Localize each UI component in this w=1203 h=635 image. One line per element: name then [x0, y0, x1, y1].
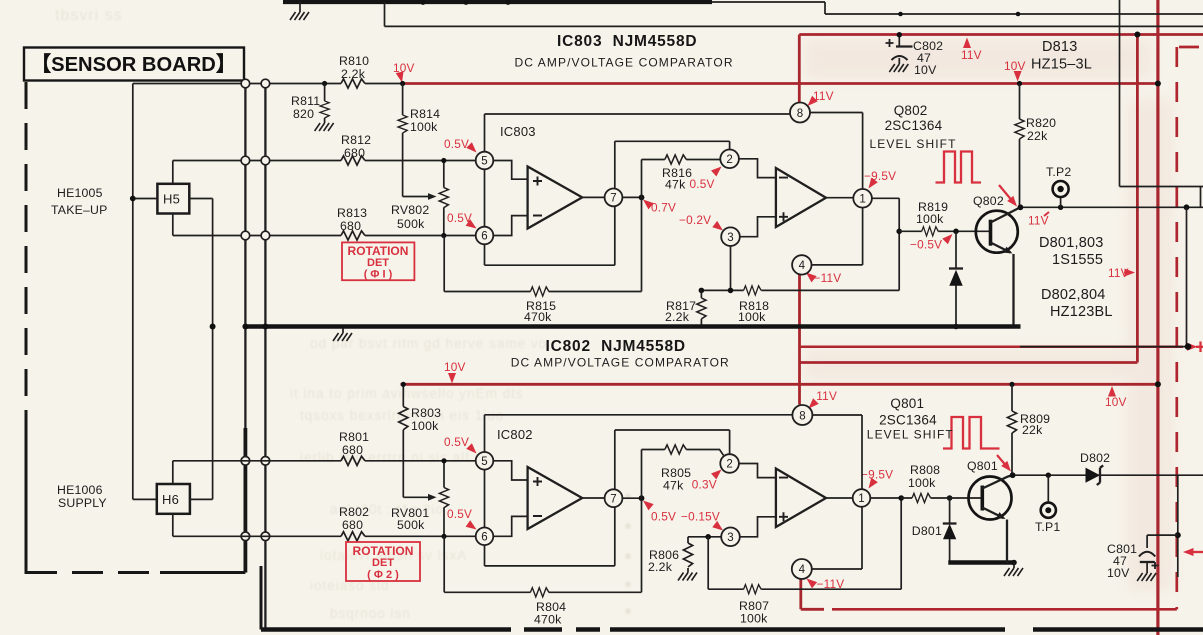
svg-text:11V: 11V: [961, 48, 982, 62]
svg-text:●: ●: [624, 488, 633, 503]
svg-text:680: 680: [344, 146, 365, 160]
svg-text:D802: D802: [1080, 451, 1110, 465]
svg-text:100k: 100k: [908, 476, 936, 490]
svg-text:2: 2: [726, 154, 732, 166]
svg-text:●: ●: [624, 576, 633, 591]
svg-text:IC803: IC803: [500, 124, 536, 139]
svg-text:22k: 22k: [1027, 129, 1048, 143]
svg-text:DC AMP/VOLTAGE COMPARATOR: DC AMP/VOLTAGE COMPARATOR: [515, 56, 734, 70]
svg-text:5: 5: [481, 456, 487, 468]
svg-text:H5: H5: [163, 192, 180, 207]
svg-text:11V: 11V: [816, 389, 837, 403]
svg-text:7: 7: [610, 493, 616, 505]
svg-text:3: 3: [727, 532, 733, 544]
svg-text:IC802: IC802: [497, 427, 533, 442]
svg-text:HZ15–3L: HZ15–3L: [1031, 57, 1092, 73]
svg-text:10V: 10V: [444, 360, 466, 374]
svg-text:0.5V: 0.5V: [447, 507, 472, 521]
svg-text:1: 1: [858, 493, 864, 505]
svg-text:D801,803: D801,803: [1039, 235, 1104, 251]
svg-text:10V: 10V: [914, 63, 937, 77]
svg-text:10V: 10V: [1004, 59, 1026, 73]
svg-text:R820: R820: [1026, 116, 1056, 130]
svg-text:0.3V: 0.3V: [692, 478, 717, 492]
svg-text:2: 2: [726, 459, 732, 471]
svg-text:2SC1364: 2SC1364: [885, 118, 943, 133]
svg-text:( Φ I ): ( Φ I ): [364, 269, 393, 281]
svg-text:8: 8: [799, 410, 805, 422]
svg-text:10V: 10V: [393, 61, 415, 75]
svg-text:●: ●: [624, 518, 633, 533]
svg-text:IC803 NJM4558D: IC803 NJM4558D: [557, 33, 697, 50]
svg-text:−0.2V: −0.2V: [679, 213, 711, 227]
svg-text:6: 6: [481, 531, 487, 543]
svg-text:R814: R814: [410, 107, 440, 121]
svg-text:680: 680: [342, 443, 363, 457]
svg-text:470k: 470k: [524, 310, 552, 324]
svg-text:4: 4: [799, 260, 806, 272]
svg-text:−9.5V: −9.5V: [861, 468, 893, 482]
svg-text:5: 5: [481, 156, 487, 168]
svg-text:DET: DET: [372, 557, 394, 569]
svg-text:R810: R810: [339, 54, 369, 68]
svg-text:100k: 100k: [411, 419, 439, 433]
svg-text:10V: 10V: [1107, 566, 1130, 580]
svg-text:TAKE–UP: TAKE–UP: [51, 203, 108, 217]
svg-text:T.P1: T.P1: [1035, 520, 1060, 534]
svg-text:−9.5V: −9.5V: [864, 169, 896, 183]
svg-text:D801: D801: [912, 524, 942, 538]
svg-text:0.5V: 0.5V: [651, 510, 676, 524]
svg-text:Q801: Q801: [967, 459, 998, 473]
svg-text:10V: 10V: [1105, 395, 1127, 409]
svg-text:( Φ 2 ): ( Φ 2 ): [367, 569, 399, 581]
svg-text:LEVEL SHIFT: LEVEL SHIFT: [870, 137, 957, 151]
svg-text:680: 680: [340, 219, 361, 233]
svg-text:0.5V: 0.5V: [444, 435, 469, 449]
svg-text:R812: R812: [341, 133, 371, 147]
svg-text:22k: 22k: [1022, 423, 1043, 437]
svg-text:2.2k: 2.2k: [665, 310, 690, 324]
svg-text:IC802 NJM4558D: IC802 NJM4558D: [546, 338, 686, 355]
svg-text:Q802: Q802: [894, 103, 928, 118]
svg-text:ROTATION: ROTATION: [353, 544, 414, 558]
svg-text:680: 680: [342, 518, 363, 532]
svg-text:ROTATION: ROTATION: [348, 244, 409, 258]
svg-text:0.5V: 0.5V: [690, 177, 715, 191]
svg-text:H6: H6: [162, 492, 179, 507]
svg-text:3: 3: [727, 232, 733, 244]
svg-text:0.7V: 0.7V: [651, 201, 676, 215]
svg-text:−0.15V: −0.15V: [681, 510, 720, 524]
svg-text:T.P2: T.P2: [1046, 165, 1071, 179]
svg-text:HE1005: HE1005: [57, 186, 103, 200]
svg-text:【SENSOR BOARD】: 【SENSOR BOARD】: [31, 53, 236, 76]
svg-text:2.2k: 2.2k: [648, 560, 673, 574]
svg-text:11V: 11V: [1108, 266, 1129, 280]
svg-text:●: ●: [624, 548, 633, 563]
svg-text:100k: 100k: [410, 120, 438, 134]
svg-text:D813: D813: [1042, 39, 1077, 55]
svg-text:2SC1364: 2SC1364: [879, 413, 937, 428]
svg-text:Q802: Q802: [973, 194, 1004, 208]
svg-text:it ina to prim avihwsello: it ina to prim avihwsello ynEm dts: [290, 386, 524, 401]
svg-text:100k: 100k: [916, 212, 944, 226]
svg-text:R803: R803: [411, 406, 441, 420]
svg-text:820: 820: [293, 107, 314, 121]
svg-text:R802: R802: [339, 505, 369, 519]
svg-text:HE1006: HE1006: [57, 483, 103, 497]
svg-text:LEVEL SHIFT: LEVEL SHIFT: [867, 428, 954, 442]
svg-text:−11V: −11V: [814, 271, 842, 285]
svg-text:R808: R808: [910, 463, 940, 477]
svg-text:RV802: RV802: [391, 203, 429, 217]
svg-text:0.5V: 0.5V: [444, 137, 469, 151]
svg-text:od par bsvt ritm gd herve: od par bsvt ritm gd herve same vo: [310, 336, 547, 351]
svg-text:DET: DET: [367, 257, 389, 269]
svg-text:1S1555: 1S1555: [1052, 252, 1103, 268]
svg-text:4: 4: [799, 564, 806, 576]
svg-text:500k: 500k: [397, 217, 425, 231]
svg-text:bsqrnoo lsn: bsqrnoo lsn: [330, 606, 411, 621]
svg-text:500k: 500k: [397, 518, 425, 532]
svg-text:Q801: Q801: [890, 396, 924, 411]
svg-text:100k: 100k: [740, 612, 768, 626]
svg-text:2.2k: 2.2k: [341, 67, 366, 81]
svg-text:7: 7: [610, 193, 616, 205]
svg-text:DC AMP/VOLTAGE COMPARATOR: DC AMP/VOLTAGE COMPARATOR: [511, 356, 730, 370]
svg-text:R813: R813: [337, 206, 367, 220]
svg-text:HZ123BL: HZ123BL: [1050, 304, 1113, 320]
svg-text:D802,804: D802,804: [1041, 287, 1106, 303]
svg-text:47k: 47k: [665, 178, 686, 192]
svg-text:●: ●: [624, 603, 633, 618]
svg-text:R801: R801: [339, 430, 369, 444]
svg-text:R811: R811: [291, 94, 320, 108]
svg-text:470k: 470k: [534, 613, 562, 627]
svg-text:1: 1: [859, 193, 865, 205]
svg-text:47k: 47k: [663, 479, 684, 493]
svg-text:SUPPLY: SUPPLY: [58, 496, 107, 510]
svg-text:8: 8: [797, 108, 803, 120]
svg-text:−0.5V: −0.5V: [910, 238, 942, 252]
svg-text:6: 6: [481, 231, 487, 243]
svg-text:tbsvri ss: tbsvri ss: [55, 7, 123, 24]
svg-text:100k: 100k: [738, 310, 766, 324]
